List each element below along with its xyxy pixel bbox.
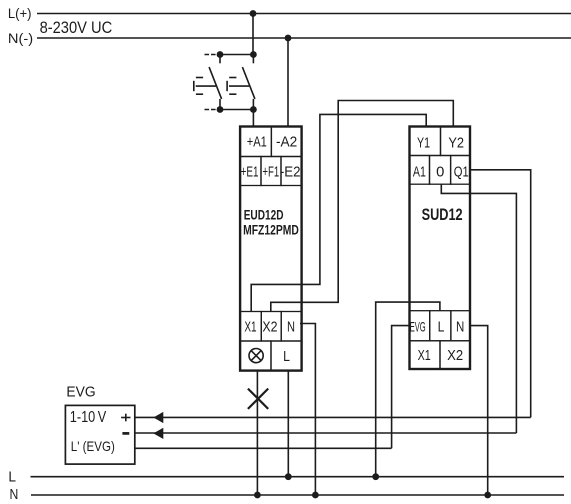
label MFZ12PMD (243, 222, 299, 238)
junction on L(+) (250, 10, 257, 17)
power line N(-) (37, 37, 571, 39)
wire N (SUD) down to N bus (470, 326, 488, 495)
terminal EVG (SUD) (410, 311, 430, 341)
junction pushbutton top bus left (217, 51, 224, 58)
junction pushbutton top bus right (250, 51, 257, 58)
junction pushbutton bottom bus left (217, 106, 224, 113)
wire L (EUD) down to L bus (287, 371, 289, 477)
terminal A1 (SUD) (410, 156, 430, 185)
terminal L (EUD) (271, 341, 302, 371)
svg-text:+A1: +A1 (247, 134, 267, 151)
svg-text:1-10 V: 1-10 V (70, 409, 107, 426)
label SUD12 (422, 206, 463, 224)
terminal L (SUD) (430, 311, 451, 341)
svg-text:L: L (283, 348, 290, 365)
wire L' of EVG to EVG terminal (135, 447, 392, 449)
terminal +F1 (261, 157, 281, 186)
svg-text:X2: X2 (447, 347, 463, 364)
terminal Y2 (441, 127, 471, 156)
svg-text:+F1: +F1 (262, 164, 279, 181)
pin minus (EVG) (122, 432, 129, 435)
svg-text:X1: X1 (244, 318, 256, 335)
svg-text:Q1: Q1 (454, 163, 469, 180)
svg-text:EVG: EVG (66, 384, 95, 400)
junction lamp wire on N bus (254, 492, 261, 499)
label EVG heading (66, 384, 95, 400)
wire N (EUD) to N bus (300, 324, 315, 496)
terminal Q1 (SUD) (451, 156, 470, 185)
svg-text:+E1: +E1 (241, 164, 259, 181)
value label 8-230V UC (40, 18, 113, 37)
terminal X2 (SUD) (440, 341, 470, 369)
arrow on minus wire (153, 428, 163, 439)
label EUD12D (244, 208, 284, 224)
svg-text:8-230V UC: 8-230V UC (40, 18, 113, 37)
junction N wire on N bus (312, 492, 319, 499)
terminal N (EUD) (281, 312, 301, 342)
module SUD12 body (410, 127, 471, 370)
svg-text:L: L (438, 319, 445, 336)
wire plus of EVG to Q1 (135, 416, 531, 418)
wire lamp output down to N bus (256, 371, 258, 495)
junction SUD L wire on L bus (372, 473, 379, 480)
terminal X2 (EUD) (261, 312, 281, 342)
label L(+) (8, 6, 32, 21)
junction on N(-) (285, 35, 292, 42)
junction L wire on L bus (285, 473, 292, 480)
svg-text:L(+): L(+) (8, 6, 32, 21)
svg-text:X1: X1 (418, 347, 431, 364)
wire X1 (EUD) to Y1 (SUD) (251, 114, 426, 311)
svg-text:L' (EVG): L' (EVG) (71, 439, 115, 454)
label N(-) (8, 31, 33, 46)
power bus L (bottom) (31, 476, 565, 478)
wire pushbutton bus to terminal +A1 (252, 110, 254, 127)
wire L (SUD) down to L bus (376, 302, 440, 477)
wire 0 (SUD) to minus of EVG (441, 184, 516, 433)
svg-text:L: L (8, 468, 16, 485)
svg-text:-E2: -E2 (280, 164, 301, 181)
terminal +A1 (240, 127, 271, 157)
svg-text:SUD12: SUD12 (422, 206, 463, 224)
terminal -A2 (271, 127, 301, 157)
svg-text:Y1: Y1 (417, 134, 430, 151)
svg-text:MFZ12PMD: MFZ12PMD (243, 222, 299, 238)
cross mark (no connection) on lamp wire (248, 389, 268, 409)
svg-text:A1: A1 (413, 163, 426, 180)
arrow on plus wire (153, 412, 163, 423)
svg-text:-A2: -A2 (276, 134, 297, 151)
svg-text:EVG: EVG (410, 319, 426, 335)
ballast EVG body (65, 405, 134, 464)
svg-text:N: N (10, 486, 19, 503)
terminal N (SUD) (451, 311, 470, 341)
terminal X1 (EUD) (240, 312, 261, 342)
svg-text:Y2: Y2 (448, 134, 464, 151)
label L bus (8, 468, 16, 485)
terminal X1 (SUD) (410, 341, 441, 369)
wire pushbutton top bus (205, 54, 254, 56)
terminal lamp output (240, 341, 271, 371)
wire N(-) down to terminal -A2 (287, 38, 289, 126)
power line L(+) (37, 13, 571, 15)
svg-text:X2: X2 (262, 318, 277, 335)
wire minus of EVG to 0 (135, 432, 516, 434)
junction SUD N wire on N bus (484, 492, 491, 499)
pushbutton S1 (194, 55, 222, 110)
svg-text:0: 0 (436, 163, 444, 180)
power bus N (bottom) (31, 494, 564, 496)
wire X2 (EUD) to Y2 (SUD) (271, 101, 454, 312)
terminal 0 (SUD) (430, 156, 451, 185)
pushbutton S2 (227, 55, 255, 110)
svg-text:N: N (287, 318, 295, 335)
svg-text:N(-): N(-) (8, 31, 33, 46)
wire Q1 (SUD) to plus of EVG (470, 170, 531, 418)
wire L(+) down to pushbutton bus (252, 14, 254, 55)
svg-text:EUD12D: EUD12D (244, 208, 284, 224)
label L' (EVG) (71, 439, 115, 454)
label 1-10V (70, 409, 107, 426)
terminal Y1 (410, 127, 441, 156)
wire EVG terminal (SUD) to L' wire (392, 326, 410, 449)
terminal +E1 (240, 157, 261, 186)
svg-text:N: N (456, 319, 464, 336)
label N bus (10, 486, 19, 503)
module EUD12D/MFZ12PMD body (240, 127, 302, 371)
terminal -E2 (280, 157, 302, 186)
pin plus (EVG) (121, 414, 130, 422)
junction pushbutton bottom bus right (250, 106, 257, 113)
wire pushbutton bottom bus (205, 109, 254, 111)
